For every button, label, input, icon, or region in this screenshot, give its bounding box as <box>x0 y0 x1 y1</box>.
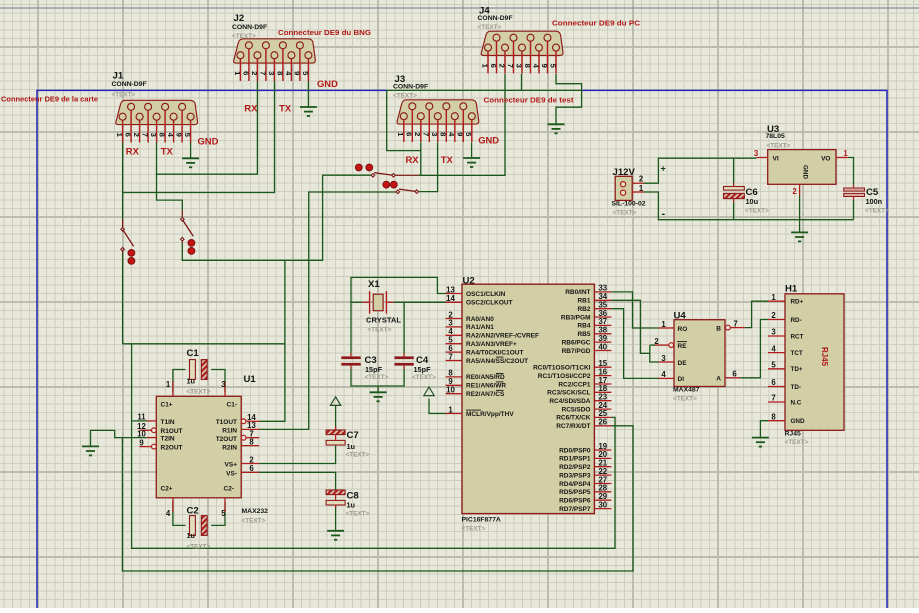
svg-text:T1IN: T1IN <box>161 419 175 426</box>
svg-text:RD5/PSP5: RD5/PSP5 <box>559 489 591 496</box>
svg-text:TX: TX <box>441 154 454 165</box>
svg-text:RB1: RB1 <box>577 298 590 305</box>
svg-text:RA3/AN3/VREF+: RA3/AN3/VREF+ <box>466 341 517 348</box>
svg-text:C7: C7 <box>347 430 359 441</box>
svg-text:CONN-D9F: CONN-D9F <box>478 15 513 22</box>
svg-text:<TEXT>: <TEXT> <box>242 518 266 525</box>
svg-text:CONN-D9F: CONN-D9F <box>112 81 147 88</box>
svg-text:1: 1 <box>448 405 453 414</box>
svg-text:RE0/AN5/RD: RE0/AN5/RD <box>466 374 505 381</box>
svg-text:<TEXT>: <TEXT> <box>412 374 436 381</box>
svg-text:2: 2 <box>654 337 659 346</box>
svg-text:TD-: TD- <box>791 384 802 391</box>
svg-text:RC7/RX/DT: RC7/RX/DT <box>556 423 590 430</box>
svg-text:RD3/PSP3: RD3/PSP3 <box>559 472 591 479</box>
svg-text:C2: C2 <box>187 506 199 517</box>
svg-text:RB2: RB2 <box>577 306 590 313</box>
svg-text:RA1/AN1: RA1/AN1 <box>466 324 494 331</box>
svg-text:3: 3 <box>661 354 666 363</box>
svg-text:RD7/PSP7: RD7/PSP7 <box>559 506 591 513</box>
svg-text:VI: VI <box>773 156 779 163</box>
svg-text:3: 3 <box>514 64 523 68</box>
svg-text:2: 2 <box>250 71 259 75</box>
svg-text:RE: RE <box>678 343 688 350</box>
svg-text:OSC2/CLKOUT: OSC2/CLKOUT <box>466 300 513 307</box>
svg-text:J2: J2 <box>234 13 245 24</box>
svg-text:26: 26 <box>598 418 607 427</box>
svg-text:T1OUT: T1OUT <box>216 419 237 426</box>
svg-text:C1+: C1+ <box>161 402 173 409</box>
svg-text:1: 1 <box>661 320 666 329</box>
svg-text:8: 8 <box>523 64 532 68</box>
svg-text:<TEXT>: <TEXT> <box>112 92 136 99</box>
svg-text:9: 9 <box>139 438 144 447</box>
svg-text:3: 3 <box>267 71 276 75</box>
svg-text:6: 6 <box>249 464 254 473</box>
svg-text:CONN-D9F: CONN-D9F <box>393 84 428 91</box>
svg-text:2: 2 <box>792 187 797 196</box>
svg-text:R2IN: R2IN <box>222 445 237 452</box>
svg-text:8: 8 <box>158 133 167 137</box>
svg-text:Connecteur DE9 du BNG: Connecteur DE9 du BNG <box>278 28 371 37</box>
svg-text:<TEXT>: <TEXT> <box>365 374 389 381</box>
svg-text:1: 1 <box>771 293 776 302</box>
svg-text:H1: H1 <box>785 284 798 295</box>
svg-text:<TEXT>: <TEXT> <box>767 143 791 150</box>
svg-text:GND: GND <box>478 135 499 146</box>
svg-text:RB6/PGC: RB6/PGC <box>562 339 591 346</box>
svg-text:RX: RX <box>406 154 420 165</box>
svg-text:RB5: RB5 <box>577 331 590 338</box>
svg-text:RC0/T1OSO/T1CKI: RC0/T1OSO/T1CKI <box>533 365 591 372</box>
svg-text:RD-: RD- <box>791 317 802 324</box>
svg-text:RD2/PSP2: RD2/PSP2 <box>559 464 591 471</box>
svg-text:5: 5 <box>771 361 776 370</box>
svg-text:8: 8 <box>249 437 254 446</box>
svg-text:PIC16F877A: PIC16F877A <box>462 517 501 524</box>
svg-text:R2OUT: R2OUT <box>161 445 183 452</box>
svg-text:<TEXT>: <TEXT> <box>187 389 211 396</box>
svg-text:RB7/PGD: RB7/PGD <box>562 348 591 355</box>
svg-text:RO: RO <box>678 326 688 333</box>
svg-text:2: 2 <box>413 132 422 136</box>
svg-text:RA2/AN2/VREF-/CVREF: RA2/AN2/VREF-/CVREF <box>466 333 539 340</box>
svg-text:RJ45: RJ45 <box>785 431 801 438</box>
svg-text:30: 30 <box>598 500 607 509</box>
svg-text:3: 3 <box>221 380 226 389</box>
svg-text:TCT: TCT <box>791 350 803 357</box>
svg-text:100n: 100n <box>866 197 883 206</box>
svg-text:7: 7 <box>771 394 775 403</box>
svg-text:9: 9 <box>456 132 465 136</box>
svg-text:1u: 1u <box>187 376 196 385</box>
svg-text:J1: J1 <box>113 70 124 81</box>
svg-text:6: 6 <box>124 133 133 137</box>
svg-text:RJ45: RJ45 <box>820 347 829 367</box>
svg-text:SIL-100-02: SIL-100-02 <box>612 201 646 208</box>
svg-text:6: 6 <box>489 64 498 68</box>
svg-text:RC1/T1OSI/CCP2: RC1/T1OSI/CCP2 <box>538 373 591 380</box>
svg-text:RX: RX <box>244 103 258 114</box>
svg-text:RD6/PSP6: RD6/PSP6 <box>559 498 591 505</box>
svg-text:<TEXT>: <TEXT> <box>785 439 809 446</box>
svg-text:14: 14 <box>446 294 455 303</box>
svg-text:MAX232: MAX232 <box>242 508 269 515</box>
svg-text:11: 11 <box>137 413 146 422</box>
svg-text:1: 1 <box>843 149 848 158</box>
svg-text:RA0/AN0: RA0/AN0 <box>466 316 494 323</box>
svg-text:C1-: C1- <box>227 402 237 409</box>
svg-text:RB3/PGM: RB3/PGM <box>561 314 591 321</box>
svg-text:T2OUT: T2OUT <box>216 436 237 443</box>
svg-text:78L05: 78L05 <box>766 133 785 140</box>
svg-text:10u: 10u <box>746 197 759 206</box>
svg-text:RC2/CCP1: RC2/CCP1 <box>558 381 591 388</box>
svg-text:1u: 1u <box>347 442 356 451</box>
svg-text:GND: GND <box>791 418 805 425</box>
svg-text:<TEXT>: <TEXT> <box>346 452 370 459</box>
svg-text:4: 4 <box>771 344 776 353</box>
svg-text:RC5/SDO: RC5/SDO <box>562 406 591 413</box>
svg-text:5: 5 <box>221 509 226 518</box>
svg-text:7: 7 <box>258 71 267 75</box>
svg-text:6: 6 <box>405 132 414 136</box>
svg-text:RE2/AN7/CS: RE2/AN7/CS <box>466 391 505 398</box>
svg-text:8: 8 <box>275 71 284 75</box>
svg-text:B: B <box>716 325 721 332</box>
svg-text:4: 4 <box>661 370 666 379</box>
svg-text:TD+: TD+ <box>791 366 803 373</box>
svg-text:10: 10 <box>137 429 146 438</box>
svg-text:RD+: RD+ <box>791 299 804 306</box>
svg-text:U1: U1 <box>244 374 257 385</box>
svg-text:2: 2 <box>249 455 254 464</box>
svg-text:6: 6 <box>241 71 250 75</box>
svg-text:TX: TX <box>279 103 292 114</box>
svg-text:RD4/PSP4: RD4/PSP4 <box>559 481 591 488</box>
svg-text:<TEXT>: <TEXT> <box>478 24 502 31</box>
svg-text:2: 2 <box>497 64 506 68</box>
svg-text:Connecteur DE9 de la carte: Connecteur DE9 de la carte <box>1 97 98 104</box>
svg-text:RC6/TX/CK: RC6/TX/CK <box>556 415 591 422</box>
svg-text:<TEXT>: <TEXT> <box>865 208 889 215</box>
svg-text:<TEXT>: <TEXT> <box>613 210 637 217</box>
svg-text:A: A <box>716 376 721 383</box>
svg-text:7: 7 <box>733 319 737 328</box>
svg-text:U4: U4 <box>674 311 687 322</box>
svg-text:+: + <box>661 164 666 174</box>
svg-text:3: 3 <box>430 132 439 136</box>
svg-text:40: 40 <box>598 342 607 351</box>
svg-text:RA4/T0CKI/C1OUT: RA4/T0CKI/C1OUT <box>466 349 523 356</box>
svg-text:CRYSTAL: CRYSTAL <box>366 316 401 325</box>
svg-text:3: 3 <box>771 328 776 337</box>
svg-text:RD1/PSP1: RD1/PSP1 <box>559 456 591 463</box>
svg-text:N.C: N.C <box>791 399 802 406</box>
svg-text:2: 2 <box>771 311 776 320</box>
svg-text:VS+: VS+ <box>225 462 238 469</box>
svg-text:DE: DE <box>678 360 688 367</box>
svg-text:2: 2 <box>132 133 141 137</box>
svg-text:<TEXT>: <TEXT> <box>462 526 486 533</box>
svg-text:<TEXT>: <TEXT> <box>187 544 211 551</box>
svg-text:2: 2 <box>639 175 644 184</box>
svg-text:7: 7 <box>448 352 452 361</box>
svg-text:RA5/AN4/SS/C2OUT: RA5/AN4/SS/C2OUT <box>466 358 528 365</box>
svg-text:TX: TX <box>161 146 174 157</box>
svg-text:MAX487: MAX487 <box>673 387 700 394</box>
svg-text:GND: GND <box>317 78 338 89</box>
svg-text:1: 1 <box>166 380 171 389</box>
svg-text:VO: VO <box>821 156 830 163</box>
svg-text:Connecteur DE9 du PC: Connecteur DE9 du PC <box>552 19 641 28</box>
svg-text:RD0/PSP0: RD0/PSP0 <box>559 447 591 454</box>
svg-text:T2IN: T2IN <box>161 436 175 443</box>
svg-text:C1: C1 <box>187 348 200 359</box>
svg-text:13: 13 <box>446 285 455 294</box>
svg-text:RCT: RCT <box>791 333 804 340</box>
svg-text:-: - <box>662 208 666 220</box>
svg-text:MCLR/Vpp/THV: MCLR/Vpp/THV <box>466 411 514 418</box>
svg-text:X1: X1 <box>368 279 380 290</box>
svg-text:8: 8 <box>439 132 448 136</box>
svg-text:CONN-D9F: CONN-D9F <box>232 24 267 31</box>
svg-text:RB4: RB4 <box>577 323 590 330</box>
svg-text:RX: RX <box>126 146 140 157</box>
svg-text:R1IN: R1IN <box>222 428 237 435</box>
svg-text:U2: U2 <box>463 275 475 286</box>
svg-text:<TEXT>: <TEXT> <box>745 208 769 215</box>
svg-text:J12V: J12V <box>613 167 636 178</box>
svg-text:9: 9 <box>292 71 301 75</box>
svg-text:RC3/SCK/SCL: RC3/SCK/SCL <box>547 390 590 397</box>
svg-text:RB0/INT: RB0/INT <box>565 289 590 296</box>
svg-text:3: 3 <box>754 149 759 158</box>
svg-text:<TEXT>: <TEXT> <box>368 327 392 334</box>
svg-text:1u: 1u <box>347 501 356 510</box>
svg-text:R1OUT: R1OUT <box>161 428 183 435</box>
svg-text:6: 6 <box>771 378 776 387</box>
svg-text:1u: 1u <box>187 531 196 540</box>
svg-text:7: 7 <box>422 132 431 136</box>
svg-text:VS-: VS- <box>226 470 237 477</box>
svg-text:15pF: 15pF <box>365 365 383 374</box>
svg-text:8: 8 <box>771 412 776 421</box>
svg-text:RE1/AN6/WR: RE1/AN6/WR <box>466 383 506 390</box>
svg-text:15pF: 15pF <box>414 365 432 374</box>
svg-text:<TEXT>: <TEXT> <box>232 33 256 40</box>
svg-text:<TEXT>: <TEXT> <box>393 93 417 100</box>
svg-text:7: 7 <box>141 133 150 137</box>
svg-text:C2-: C2- <box>224 486 234 493</box>
svg-text:GND: GND <box>198 135 219 146</box>
svg-text:7: 7 <box>506 64 515 68</box>
svg-text:4: 4 <box>166 509 171 518</box>
svg-text:C2+: C2+ <box>161 486 173 493</box>
svg-text:1: 1 <box>639 184 644 193</box>
svg-text:<TEXT>: <TEXT> <box>673 396 697 403</box>
svg-text:3: 3 <box>149 133 158 137</box>
svg-text:OSC1/CLKIN: OSC1/CLKIN <box>466 291 506 298</box>
svg-text:9: 9 <box>175 133 184 137</box>
svg-text:10: 10 <box>446 386 455 395</box>
svg-text:6: 6 <box>732 370 737 379</box>
svg-text:<TEXT>: <TEXT> <box>346 510 370 517</box>
svg-text:Connecteur DE9 de test: Connecteur DE9 de test <box>484 96 575 105</box>
svg-text:DI: DI <box>678 376 685 383</box>
svg-text:RC4/SDI/SDA: RC4/SDI/SDA <box>549 398 590 405</box>
svg-text:9: 9 <box>540 64 549 68</box>
svg-text:GND: GND <box>802 165 809 179</box>
